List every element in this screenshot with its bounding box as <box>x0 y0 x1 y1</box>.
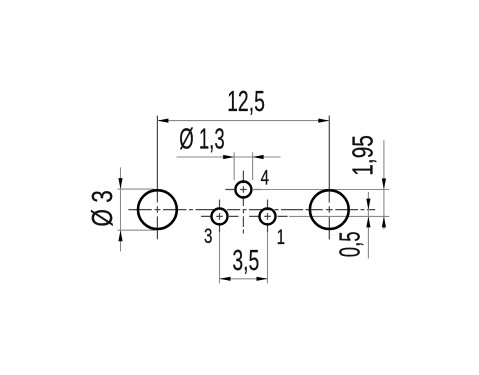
extension line below pin 1 <box>267 232 269 283</box>
arrow bottom (outside) of diameter 3 <box>118 230 122 241</box>
arrow top (outside) of dimension 1,95 <box>382 179 386 190</box>
svg-text:4: 4 <box>261 165 269 189</box>
extension line below pin 3 <box>219 232 221 283</box>
dimension line 1,95 <box>383 140 385 229</box>
svg-text:12,5: 12,5 <box>227 87 265 119</box>
arrow bottom (outside) of dimension 1,95 <box>382 216 386 227</box>
arrow right of dimension 3,5 <box>257 277 268 281</box>
arrow top (outside) of diameter 3 <box>118 178 122 189</box>
arrow left (outside) of diameter 1,3 <box>223 155 234 159</box>
svg-text:Ø 1,3: Ø 1,3 <box>179 124 224 156</box>
extension line right of pin 1 <box>289 215 389 217</box>
svg-text:3,5: 3,5 <box>232 245 259 277</box>
svg-text:1: 1 <box>277 224 285 248</box>
extension line top tangent left hole <box>118 188 155 190</box>
svg-text:0,5: 0,5 <box>334 231 366 257</box>
svg-text:1,95: 1,95 <box>347 135 379 176</box>
pin 4 hole <box>235 182 251 198</box>
arrow left of dimension 3,5 <box>220 277 231 281</box>
centerline horizontal pin 1 <box>249 215 287 217</box>
centerline vertical right mounting hole <box>328 116 330 240</box>
arrow right (outside) of diameter 1,3 <box>253 155 264 159</box>
dimension line diameter 3 <box>120 167 122 251</box>
centerline horizontal pin 3 <box>201 215 239 217</box>
centerline vertical middle axis through pin 4 <box>242 171 244 234</box>
centerline vertical pin 3 <box>219 200 221 233</box>
dimension line 0,5 <box>367 192 369 259</box>
extension line right of pin 4 <box>253 189 389 191</box>
centerline vertical left mounting hole <box>156 116 158 240</box>
mounting hole right diameter 3 <box>310 190 349 229</box>
dimension line 3,5 <box>220 278 268 280</box>
arrow top (outside) of dimension 0,5 <box>366 199 370 210</box>
dimension line diameter 1,3 <box>177 156 281 158</box>
svg-text:3: 3 <box>204 224 212 248</box>
arrow left of dimension 12,5 <box>157 119 168 123</box>
extension line right tangent pin 4 <box>252 152 254 180</box>
pin 1 hole <box>260 208 276 224</box>
svg-text:Ø 3: Ø 3 <box>85 190 118 226</box>
mounting hole left diameter 3 <box>138 190 177 229</box>
centerline main horizontal through both mounting holes <box>128 209 375 211</box>
extension line bottom tangent left hole <box>118 229 156 231</box>
pin 3 hole <box>212 208 228 224</box>
dimension line 12,5 <box>157 120 329 122</box>
arrow right of dimension 12,5 <box>318 119 329 123</box>
centerline horizontal pin 4 <box>225 189 261 191</box>
centerline vertical pin 1 <box>267 200 269 233</box>
extension line left tangent pin 4 <box>233 152 235 180</box>
arrow bottom (outside) of dimension 0,5 <box>366 216 370 227</box>
